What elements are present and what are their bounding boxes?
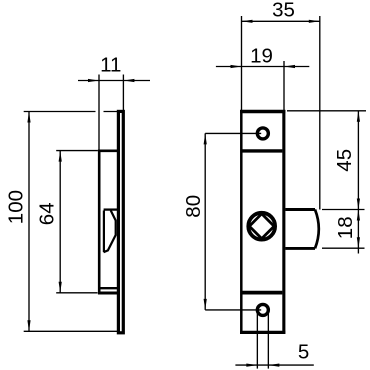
svg-text:11: 11 [100, 54, 121, 77]
dim 18 arrow top [357, 210, 360, 221]
side view body left edge [98, 150, 101, 295]
dim 18 extension line top (bolt top) [322, 209, 365, 211]
bolt curved face [315, 210, 319, 249]
spindle hole circle [248, 213, 275, 240]
dim 100 dimension line [28, 112, 30, 332]
dim 18 dimension line [357, 210, 359, 254]
dim 80 arrow top [204, 133, 207, 144]
svg-text:80: 80 [182, 195, 205, 218]
dim 64 arrow top [59, 151, 62, 162]
dim 100 extension line top [24, 111, 118, 113]
dim 45 extension line top (body top right) [287, 110, 366, 112]
dim 100 extension line bottom [24, 330, 118, 332]
top screw hole [257, 128, 268, 139]
dim 5 arrow right [268, 364, 279, 367]
dim 45 arrow bottom [357, 199, 360, 210]
dim 100 arrow top [27, 112, 30, 123]
dim 5 extension line left [256, 313, 258, 369]
front view faceplate left edge [240, 110, 243, 334]
front view body top divider [243, 149, 283, 152]
bottom screw hole [257, 304, 268, 315]
dim 18 arrow bottom [357, 237, 360, 248]
dim 80 dimension line [204, 133, 206, 310]
dim 35 extension line left [241, 16, 243, 110]
dim 19 dimension line [216, 66, 309, 68]
spindle square [249, 214, 274, 239]
dim 19 arrow right [284, 65, 295, 68]
dim 80 arrow bottom [204, 299, 207, 310]
side view body inner bottom line [101, 287, 118, 289]
dim 11 extension line left [98, 75, 100, 150]
dim 19 arrow left [231, 65, 242, 68]
dim 35 arrow left [242, 20, 253, 23]
dim 5 arrow left [246, 364, 257, 367]
dim 80 extension line top [205, 132, 261, 134]
dim 11 extension line right [122, 75, 124, 111]
dim 18 extension line bottom (bolt bottom) [322, 247, 365, 249]
dim 100 arrow bottom [27, 320, 30, 331]
front view faceplate right edge [282, 110, 285, 334]
side view faceplate [118, 111, 123, 332]
svg-text:18: 18 [334, 216, 357, 239]
dim 45 dimension line [357, 111, 359, 210]
dim 64 arrow bottom [59, 282, 62, 293]
dim 64 dimension line [59, 151, 61, 293]
dim 35 dimension line [242, 20, 320, 22]
dim 64 extension line top [56, 150, 98, 152]
svg-text:64: 64 [36, 202, 59, 225]
dim 80 extension line bottom [205, 309, 261, 311]
svg-text:5: 5 [298, 341, 309, 364]
front view body bottom divider [243, 291, 283, 295]
dim 19 extension line right [283, 61, 285, 110]
svg-text:35: 35 [272, 0, 295, 22]
dim 64 extension line bottom [56, 292, 97, 294]
dim 45 arrow top [357, 111, 360, 122]
bolt bottom edge [285, 247, 315, 250]
side view body bottom edge [98, 292, 117, 295]
svg-text:45: 45 [333, 149, 356, 172]
front view faceplate top edge [240, 110, 285, 114]
dim 5 dimension line [235, 364, 313, 366]
svg-text:100: 100 [4, 190, 27, 224]
svg-text:19: 19 [250, 45, 273, 68]
side view slider knob outline [104, 210, 116, 252]
dim 11 arrow right [123, 79, 134, 82]
front view faceplate bottom edge [240, 331, 285, 334]
dim 35 arrow right [309, 20, 320, 23]
dim 5 extension line right [267, 313, 269, 369]
dim 11 dimension line [78, 80, 150, 82]
side view slider knob top line [104, 208, 117, 210]
bolt top edge [285, 208, 315, 211]
dim 11 arrow left [88, 79, 99, 82]
dim 35 extension line right [319, 16, 321, 210]
side view body top edge [98, 149, 117, 152]
